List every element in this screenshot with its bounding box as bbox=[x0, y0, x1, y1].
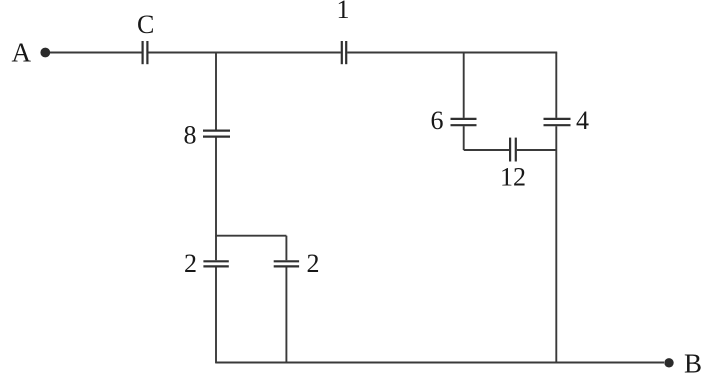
svg-text:1: 1 bbox=[337, 0, 350, 24]
svg-text:A: A bbox=[12, 38, 32, 68]
svg-text:6: 6 bbox=[431, 106, 444, 135]
svg-text:12: 12 bbox=[500, 163, 526, 192]
svg-text:C: C bbox=[137, 10, 154, 39]
svg-text:B: B bbox=[684, 349, 702, 379]
svg-text:2: 2 bbox=[307, 249, 320, 278]
svg-text:4: 4 bbox=[576, 106, 589, 135]
svg-text:8: 8 bbox=[184, 121, 197, 150]
svg-text:2: 2 bbox=[184, 249, 197, 278]
